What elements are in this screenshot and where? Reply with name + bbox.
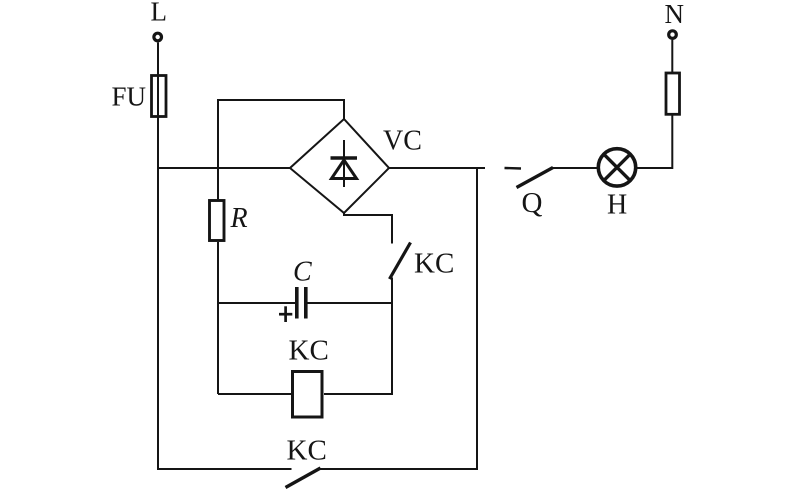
- wire: bottom return right segment: [320, 468, 479, 470]
- wire: coil row left segment: [218, 393, 291, 395]
- fuse FU: [152, 76, 167, 117]
- svg-text:H: H: [607, 190, 627, 221]
- wire: Q to lamp: [552, 167, 597, 169]
- wire: branch up from node at x=218 to bridge top: [218, 100, 344, 199]
- wire: main horizontal bus (left of bridge): [157, 167, 290, 169]
- diode inside VC: cathode bar: [331, 156, 358, 160]
- wire: main horizontal bus (right of bridge): [389, 167, 485, 169]
- svg-text:FU: FU: [112, 82, 147, 112]
- diode inside VC: lead line: [343, 140, 345, 187]
- lamp H (circle with X): [598, 149, 635, 186]
- diode inside VC: triangle: [332, 160, 357, 179]
- capacitor C plates: [295, 287, 308, 319]
- wire: capacitor row right segment: [307, 302, 393, 304]
- fuse (right, unlabeled): [666, 73, 680, 114]
- wire: lamp to right rail up to fuse: [637, 114, 673, 168]
- wire: bridge bottom to KC contact: [344, 212, 392, 244]
- svg-text:KC: KC: [414, 248, 454, 280]
- node N (neutral terminal): [669, 31, 677, 39]
- svg-text:R: R: [230, 203, 248, 234]
- wire: capacitor row left segment: [218, 302, 296, 304]
- resistor R: [210, 201, 225, 241]
- wire: KC contact down to coil wire (right branch x=392): [391, 278, 393, 395]
- svg-text:L: L: [151, 0, 168, 27]
- svg-text:Q: Q: [522, 187, 543, 219]
- rectifier bridge VC (diamond): [290, 119, 389, 213]
- wire: coil row right segment: [324, 393, 393, 395]
- label + (capacitor polarity): [279, 306, 292, 322]
- contact KC (normally-open, bottom) blade: [286, 468, 321, 488]
- wire: right fuse to N terminal: [671, 40, 673, 73]
- svg-text:C: C: [293, 257, 312, 288]
- switch Q blade: [517, 168, 554, 188]
- relay coil KC: [293, 372, 323, 418]
- svg-text:KC: KC: [287, 435, 327, 467]
- switch Q fixed contact dash: [505, 167, 522, 170]
- wire: left branch below R down to coil wire: [217, 242, 219, 394]
- wire: bottom return left segment: [157, 468, 292, 470]
- svg-text:N: N: [665, 0, 685, 29]
- wire: right vertical from main bus down to bottom wire: [476, 168, 478, 469]
- svg-text:KC: KC: [289, 335, 329, 367]
- wire: left rail from L terminal down to bottom wire: [157, 43, 159, 470]
- node L (phase terminal): [154, 33, 162, 41]
- contact KC (normally-open, upper right) blade: [390, 243, 411, 280]
- svg-text:VC: VC: [383, 126, 422, 157]
